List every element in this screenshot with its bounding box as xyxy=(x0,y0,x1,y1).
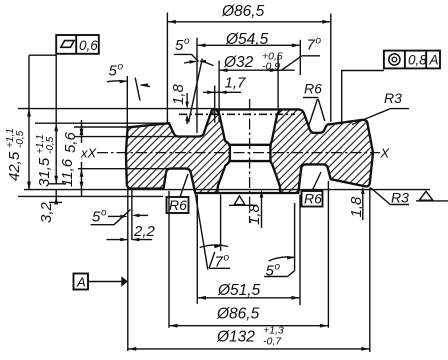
svg-text:5: 5 xyxy=(175,37,184,54)
svg-text:Ø86,5: Ø86,5 xyxy=(216,306,260,323)
ext line top groove floor xyxy=(75,136,179,138)
svg-text:Ø51,5: Ø51,5 xyxy=(217,282,261,299)
boxed label R6 bottom-left xyxy=(167,174,189,213)
dimension 1,7 xyxy=(203,75,246,123)
svg-text:1,8: 1,8 xyxy=(170,83,187,105)
angle label 7° top xyxy=(282,36,322,71)
text 3,2 (rotated) xyxy=(38,201,55,223)
bore top opening edge line xyxy=(216,108,280,110)
svg-text:o: o xyxy=(118,62,124,73)
svg-text:A: A xyxy=(76,275,86,290)
horizontal centerline X-X xyxy=(97,152,380,154)
ext line rim top outer corner y=127 xyxy=(74,126,129,128)
svg-text:0,6: 0,6 xyxy=(79,38,98,53)
radius label R6 top-right (leaders to groove fillets) xyxy=(303,81,325,126)
svg-text:R3: R3 xyxy=(391,190,409,206)
datum A box xyxy=(74,274,128,290)
dim 1,8 bottom-right xyxy=(348,186,365,220)
svg-text:X: X xyxy=(380,146,391,161)
angle label 5° top-left (first) xyxy=(174,36,214,123)
bore bottom opening edge line xyxy=(217,192,280,194)
svg-text:R3: R3 xyxy=(384,90,402,106)
dimension Ø54,5 xyxy=(197,31,300,133)
dimension 5,6 / 11,6 line xyxy=(81,120,83,196)
dimension Ø32 +0,5 -0,9 xyxy=(219,51,294,123)
text 42,5 +1,1 -0,5 (rotated) xyxy=(5,128,26,181)
svg-text:o: o xyxy=(275,262,281,273)
svg-text:-0,9: -0,9 xyxy=(262,61,280,73)
svg-text:11,6: 11,6 xyxy=(59,158,76,187)
dimension 31,5 line + 3,2 leg xyxy=(55,54,57,205)
svg-text:R6: R6 xyxy=(304,191,322,207)
text 31,5 +1,1 -0,5 (rotated) xyxy=(35,134,56,187)
svg-text:3,2: 3,2 xyxy=(38,201,55,223)
short line 3,2 lower ref xyxy=(49,201,62,203)
dimension Ø86,5 top xyxy=(167,3,330,123)
svg-text:5: 5 xyxy=(109,63,118,80)
svg-text:o: o xyxy=(316,36,322,47)
svg-text:1,7: 1,7 xyxy=(225,75,247,92)
bore waist lower edge line xyxy=(230,160,271,162)
dim 1,8 bottom-center xyxy=(246,190,263,228)
svg-text:Ø86,5: Ø86,5 xyxy=(221,3,265,20)
svg-text:1,8: 1,8 xyxy=(348,196,365,218)
surface mark triangle right edge xyxy=(416,191,448,201)
surface mark triangle bottom-center xyxy=(229,196,257,205)
svg-text:1,8: 1,8 xyxy=(246,203,263,225)
angle label 5° bottom-left + dim 2,2 xyxy=(91,189,156,352)
text 5,6 (rotated) xyxy=(62,131,79,153)
svg-text:0,8: 0,8 xyxy=(408,53,427,68)
svg-text:-0,5: -0,5 xyxy=(45,136,56,154)
svg-text:xX: xX xyxy=(80,146,98,161)
text 11,6 (rotated) xyxy=(59,158,76,187)
concentricity frame 0,8 A xyxy=(384,51,440,69)
svg-text:R6: R6 xyxy=(304,81,322,97)
svg-text:7: 7 xyxy=(307,37,316,54)
part right half section (hatched) xyxy=(270,109,373,193)
svg-text:31,5: 31,5 xyxy=(36,157,53,187)
svg-text:42,5: 42,5 xyxy=(6,151,23,181)
flatness frame 0,6 xyxy=(56,35,99,54)
boxed label R6 bottom-right xyxy=(302,172,323,207)
vertical axis centerline xyxy=(249,99,251,223)
svg-text:A: A xyxy=(429,53,439,68)
ext line 31,5 bottom xyxy=(49,183,66,185)
dimension Ø86,5 bottom xyxy=(169,181,328,328)
dim 1,8 top-left xyxy=(170,83,189,124)
svg-text:-0,5: -0,5 xyxy=(15,130,26,148)
ext line top face (long left) xyxy=(18,108,214,110)
svg-text:Ø132: Ø132 xyxy=(216,329,255,346)
svg-text:5: 5 xyxy=(92,209,101,226)
leader of 0,8 frame xyxy=(342,71,384,125)
angle label 5° bottom-center + arc xyxy=(264,203,295,280)
svg-text:Ø32: Ø32 xyxy=(223,54,254,71)
dimension Ø132 +1,3 -0,7 xyxy=(128,188,370,353)
radius label R3 top-right xyxy=(352,90,409,125)
heat-treatment dash-dot line (top) xyxy=(179,113,295,115)
ext line bottom groove floor xyxy=(78,168,177,170)
ext line rim top inner y=123 xyxy=(35,122,170,124)
svg-text:-0,7: -0,7 xyxy=(263,336,282,348)
svg-text:Ø54,5: Ø54,5 xyxy=(225,31,269,48)
part left half section (hatched) xyxy=(126,109,230,193)
radius label R3 bottom-right xyxy=(370,188,409,206)
svg-text:o: o xyxy=(101,208,107,219)
svg-text:R6: R6 xyxy=(169,197,187,213)
angle label 7° bottom + arc xyxy=(195,193,230,271)
long bottom line y=189.6 xyxy=(24,189,430,191)
dimension Ø51,5 xyxy=(197,195,300,306)
bore waist upper edge line xyxy=(230,144,271,146)
long bottom line y=196.4 xyxy=(18,195,163,197)
svg-text:5,6: 5,6 xyxy=(62,131,79,153)
svg-text:o: o xyxy=(224,253,230,264)
svg-text:2,2: 2,2 xyxy=(133,223,156,240)
dimension 42,5 line xyxy=(29,55,56,190)
angle label 5° left (second) xyxy=(107,62,150,101)
ext line above rim top-left corner xyxy=(126,76,128,127)
svg-text:o: o xyxy=(184,36,190,47)
